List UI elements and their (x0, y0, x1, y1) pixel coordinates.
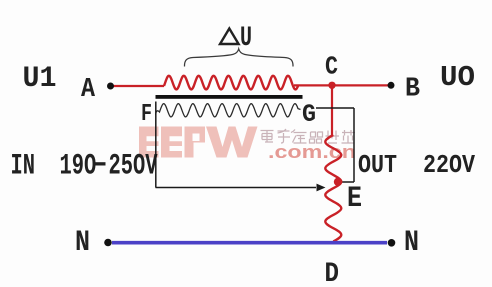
svg-text:N: N (404, 226, 419, 260)
wire box to tap E (340, 181, 354, 183)
wire winding to C to B (294, 84, 391, 86)
regulator box top edge (316, 107, 354, 109)
svg-text:C: C (325, 52, 338, 82)
svg-text:U: U (240, 23, 252, 54)
svg-text:UO: UO (440, 61, 475, 94)
watermark (139, 127, 356, 163)
svg-text:A: A (81, 75, 96, 105)
svg-text:B: B (405, 75, 420, 105)
terminal dot A (107, 83, 114, 90)
wire C down to autotransformer (331, 85, 333, 135)
transformer core bar (156, 95, 303, 99)
label delta-U (220, 23, 252, 54)
terminal dot B (388, 82, 395, 89)
wire A to series winding (113, 85, 164, 87)
junction dot E (334, 178, 342, 186)
regulator box left edge (155, 102, 157, 188)
control winding F-G (black coil) (156, 104, 301, 117)
svg-text:F: F (141, 101, 152, 128)
autotransformer winding C-D (red vertical coil) (325, 135, 341, 242)
svg-text:.com.cn: .com.cn (268, 142, 356, 162)
svg-text:N: N (75, 226, 90, 260)
terminal dot N right (388, 239, 396, 247)
terminal dot N left (104, 239, 112, 247)
regulator box right edge (353, 108, 355, 182)
brace over series winding (184, 49, 293, 67)
svg-text:U1: U1 (23, 62, 57, 96)
svg-text:OUT 22OV: OUT 22OV (358, 150, 475, 180)
wiper arrow (317, 184, 326, 192)
svg-text:E: E (347, 182, 362, 216)
junction dot C (328, 82, 335, 89)
series winding L1 (red horizontal coil) (164, 76, 298, 90)
neutral wire N-N (blue) (112, 241, 387, 245)
regulator box bottom edge / wiper drive (156, 187, 317, 189)
svg-text:D: D (325, 259, 340, 287)
svg-text:G: G (302, 100, 316, 129)
svg-text:IN 19O 25OV: IN 19O 25OV (11, 150, 158, 184)
